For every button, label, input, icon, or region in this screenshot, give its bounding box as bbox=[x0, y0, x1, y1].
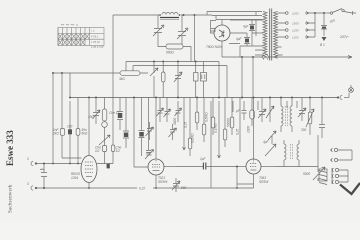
svg-text:0,5MΩ: 0,5MΩ bbox=[205, 112, 209, 122]
node dots lower bbox=[43, 163, 238, 189]
wire V3 left bbox=[237, 166, 246, 168]
resistor R6 series bbox=[102, 146, 106, 164]
svg-text:5000: 5000 bbox=[303, 172, 310, 176]
wire left verticals bbox=[53, 73, 62, 164]
svg-text:500Ω: 500Ω bbox=[166, 51, 174, 55]
capacitor C2 variable bbox=[177, 15, 188, 44]
bus end connector bbox=[337, 95, 349, 99]
antenna terminal 1 bbox=[31, 161, 81, 165]
IF coil L4b bbox=[290, 98, 292, 133]
resistor R10 bbox=[195, 98, 199, 131]
bottom ground bus bbox=[36, 187, 254, 189]
trimmer C7 bbox=[174, 62, 182, 98]
wire v184 bbox=[183, 98, 186, 151]
node bbox=[43, 163, 45, 165]
svg-text:0,1MΩ: 0,1MΩ bbox=[214, 123, 218, 133]
svg-text:3: 3 bbox=[27, 157, 29, 161]
transformer core bbox=[270, 9, 272, 61]
capacitor C5 electrolytic bbox=[244, 33, 250, 46]
wire V2 top bbox=[155, 98, 157, 160]
ground B1 bbox=[322, 37, 327, 41]
resistor R11 bbox=[202, 98, 206, 143]
tube V1 RENS1294 bbox=[81, 156, 97, 183]
trimmer C9 bbox=[93, 98, 101, 125]
tube V1 internals bbox=[85, 162, 93, 177]
tube V2 bbox=[148, 159, 164, 175]
svg-text:110V: 110V bbox=[292, 36, 300, 40]
trimmer C16 bbox=[258, 98, 266, 123]
wire bus left corner bbox=[69, 73, 71, 98]
transformer secondary winding bbox=[274, 12, 278, 59]
arrow output bbox=[265, 144, 276, 156]
potentiometer P2 bbox=[306, 98, 314, 136]
output transformer T2 bbox=[319, 169, 327, 185]
potentiometer P3 bbox=[313, 167, 325, 180]
trimmer C17 bbox=[298, 98, 306, 122]
table text labels bbox=[91, 29, 104, 50]
svg-text:150V: 150V bbox=[292, 22, 300, 26]
svg-text:500: 500 bbox=[181, 186, 187, 190]
svg-text:1/2: 1/2 bbox=[116, 149, 121, 153]
svg-text:1.05 16: 1.05 16 bbox=[91, 40, 100, 44]
table top ticks bbox=[61, 24, 77, 26]
svg-text:Eswe 333: Eswe 333 bbox=[5, 130, 15, 166]
node bbox=[52, 72, 54, 74]
node junction bbox=[314, 12, 316, 14]
svg-text:B 1: B 1 bbox=[320, 43, 325, 47]
node H1 contacts bbox=[183, 14, 185, 16]
svg-text:3kΩ: 3kΩ bbox=[119, 77, 125, 81]
dial lamp bbox=[349, 85, 354, 98]
transformer secondary taps bbox=[278, 13, 286, 55]
jack J1 bbox=[330, 148, 352, 152]
speaker chevron bbox=[340, 183, 360, 194]
wire screen lines right bbox=[219, 57, 253, 98]
capacitor C10 electrolytic bbox=[117, 98, 123, 131]
svg-text:Sachsenwerk: Sachsenwerk bbox=[9, 184, 14, 213]
trimmer C25 bbox=[146, 122, 154, 140]
potentiometer P4 bbox=[266, 98, 274, 123]
trimmer C26 bbox=[169, 124, 177, 140]
wire v237 bbox=[236, 167, 238, 189]
svg-text:50000: 50000 bbox=[227, 118, 231, 127]
svg-text:220V~: 220V~ bbox=[339, 35, 349, 39]
transformer primary taps bbox=[255, 50, 263, 55]
node bbox=[241, 56, 243, 58]
wire V2 plate bbox=[164, 166, 177, 168]
capacitor C6 mains bbox=[321, 13, 327, 36]
svg-text:0,25: 0,25 bbox=[236, 129, 240, 135]
choke core bbox=[160, 16, 179, 18]
node bbox=[153, 61, 155, 63]
wire upper bus B bbox=[133, 65, 227, 67]
IF coil L4a bbox=[281, 98, 283, 133]
svg-text:3000: 3000 bbox=[173, 118, 177, 125]
trimmer arrow A1 bbox=[99, 135, 110, 145]
wire V1 top bbox=[88, 98, 90, 156]
primary jumper bbox=[255, 12, 257, 37]
wire v240 bbox=[239, 98, 241, 153]
jack column J3 bbox=[332, 168, 348, 184]
wire V3 plate bbox=[261, 166, 275, 168]
voltage tap labels bbox=[291, 12, 300, 40]
wire v318 down bbox=[317, 135, 319, 172]
wire v219b bbox=[218, 101, 221, 158]
tube V3 bbox=[246, 159, 261, 174]
wire top B+ line bbox=[113, 14, 212, 16]
capacitor C3 small bbox=[211, 29, 216, 32]
wire caps bottom bbox=[229, 33, 263, 57]
wire v148 bbox=[146, 98, 151, 154]
svg-text:1294: 1294 bbox=[71, 176, 78, 180]
capacitor C4 electrolytic bbox=[249, 20, 255, 46]
IF core dashes bbox=[286, 106, 293, 160]
trimmer C13 bbox=[172, 178, 180, 192]
trimmer C23 bbox=[175, 101, 182, 122]
jack J2 bbox=[330, 150, 352, 162]
svg-text:750Ω NGN: 750Ω NGN bbox=[206, 45, 222, 49]
wire heater arrow end bbox=[348, 56, 352, 59]
svg-text:0,22: 0,22 bbox=[139, 187, 145, 191]
resistor R13 bbox=[223, 98, 227, 148]
svg-text:SR3W: SR3W bbox=[158, 180, 168, 184]
svg-text:F 05.1: F 05.1 bbox=[91, 35, 99, 39]
trimmer C21 bbox=[157, 98, 164, 123]
wire heater line bbox=[222, 56, 352, 58]
resistor R14 bbox=[230, 98, 234, 136]
svg-text:100: 100 bbox=[67, 125, 73, 129]
IF coil L5b bbox=[297, 140, 299, 160]
wire H1 drop bbox=[194, 15, 196, 62]
wire upper bus A bbox=[126, 61, 219, 63]
capacitor C20 on antenna line bbox=[107, 164, 110, 169]
resistor R3 bbox=[162, 62, 166, 98]
svg-text:1.05 17.05: 1.05 17.05 bbox=[91, 45, 104, 49]
capacitor C1 variable bbox=[153, 15, 164, 44]
switch table S1 bbox=[58, 28, 104, 46]
coil box L3 bbox=[250, 98, 255, 127]
wire primary feed nest bbox=[207, 12, 262, 26]
coil unit L2 bbox=[102, 98, 108, 146]
wire V1 leads bbox=[62, 158, 113, 188]
capacitor C14 coupling bbox=[177, 163, 238, 170]
heater connector pair bbox=[261, 55, 270, 60]
rectifier tube V4 bbox=[214, 25, 230, 41]
resistor R5 bbox=[76, 98, 80, 164]
wire IF bottom bbox=[275, 160, 318, 167]
tube V3 internals bbox=[250, 160, 257, 171]
node dots on bus bbox=[69, 97, 323, 99]
svg-text:0,25: 0,25 bbox=[184, 122, 188, 128]
capacitor C24 electrolytic bbox=[68, 101, 72, 164]
IF coil L5a bbox=[284, 140, 286, 160]
resistor R2 bbox=[120, 62, 140, 76]
wire selector bus bbox=[309, 13, 324, 37]
wire V3 top bbox=[253, 98, 255, 160]
wire AVC line bbox=[53, 72, 148, 74]
svg-text:300: 300 bbox=[88, 115, 94, 119]
wire V2 bottom bbox=[155, 175, 157, 188]
trimmer C18 bbox=[268, 131, 276, 144]
tube V2 internals bbox=[152, 160, 160, 171]
choke L1 bbox=[162, 13, 178, 15]
trimmer C27 bbox=[145, 150, 154, 160]
svg-text:3: 3 bbox=[27, 182, 29, 186]
capacitor C15 bbox=[242, 101, 247, 120]
node choke ends bbox=[159, 14, 161, 16]
svg-text:220V: 220V bbox=[291, 12, 300, 16]
capacitor C11 electrolytic bbox=[123, 98, 129, 149]
potentiometer P1 bbox=[150, 62, 158, 98]
wire tube left corner bbox=[211, 21, 217, 34]
wire left long vertical bbox=[112, 15, 114, 164]
tap terminal circles bbox=[286, 12, 289, 39]
svg-text:300: 300 bbox=[301, 128, 307, 132]
antenna terminal 2 bbox=[31, 186, 37, 190]
svg-text:1/2: 1/2 bbox=[95, 149, 100, 153]
tap selector arrows bbox=[305, 12, 312, 39]
wire tube to caps top bbox=[222, 20, 263, 57]
capacitor C12 electrolytic bbox=[139, 98, 145, 157]
wire V3 bottom loop bbox=[237, 174, 254, 188]
capacitor C8 antenna bbox=[40, 164, 47, 189]
resistor R1 bbox=[158, 44, 191, 62]
resistor R12 bbox=[211, 98, 215, 136]
transformer T power primary winding bbox=[263, 12, 267, 59]
svg-text:2kΩ: 2kΩ bbox=[52, 132, 59, 136]
wire v134 to V2 bbox=[134, 98, 148, 168]
extra bus ticks bbox=[233, 101, 297, 112]
switch contacts K1 bbox=[194, 62, 207, 98]
svg-text:t. 1: t. 1 bbox=[91, 29, 95, 33]
resistor R4 bbox=[60, 129, 64, 136]
switch S2 mains bbox=[324, 9, 356, 16]
svg-text:6kΩ: 6kΩ bbox=[82, 132, 88, 136]
resistor R7 series on v113 bbox=[111, 145, 115, 152]
main bus ground line bbox=[70, 97, 338, 99]
svg-text:125V: 125V bbox=[292, 29, 300, 33]
capacitor C22 bbox=[164, 98, 171, 123]
svg-text:1000: 1000 bbox=[247, 126, 251, 133]
wire v211 bbox=[210, 101, 212, 188]
resistor R9 bbox=[188, 98, 192, 157]
svg-text:SR3W: SR3W bbox=[259, 180, 269, 184]
capacitor C19 bbox=[319, 98, 325, 139]
